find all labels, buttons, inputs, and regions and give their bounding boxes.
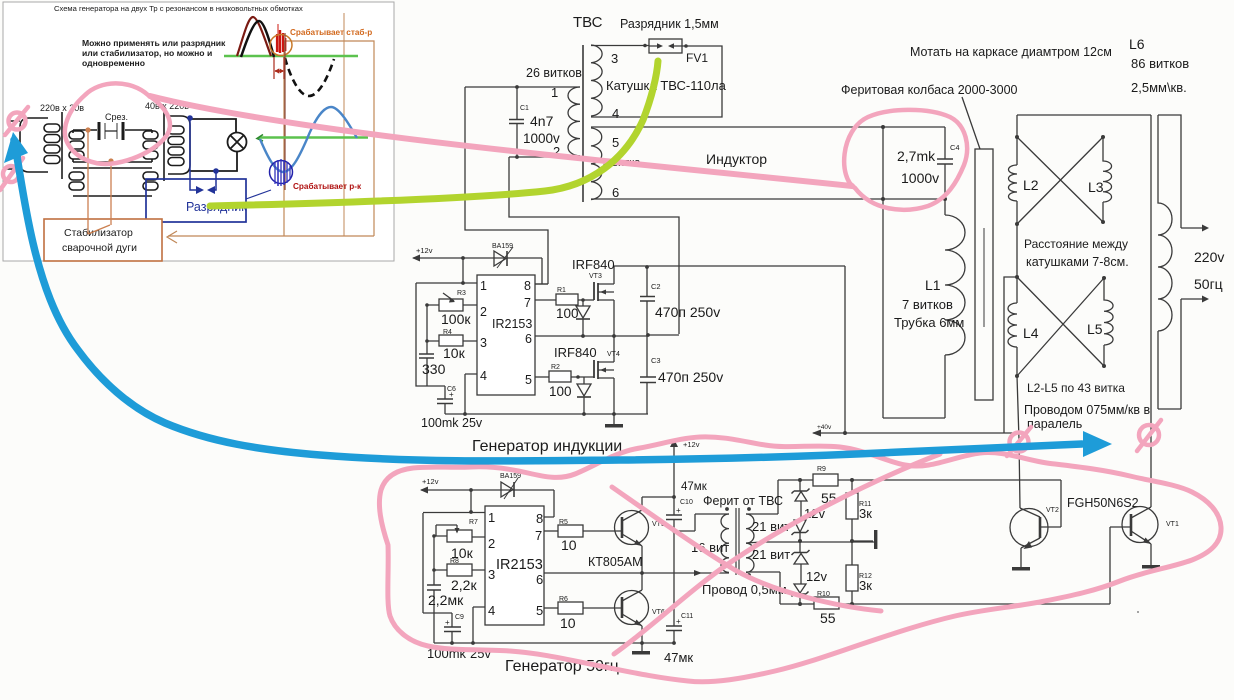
node pin1 junction bbox=[461, 281, 465, 285]
svg-text:R7: R7 bbox=[469, 519, 478, 526]
lamp bbox=[228, 133, 247, 152]
svg-text:Срез.: Срез. bbox=[105, 112, 128, 122]
svg-text:Схема генератора на двух Тр с: Схема генератора на двух Тр с резонансом… bbox=[54, 4, 303, 13]
node L5 top bbox=[1102, 276, 1106, 280]
svg-text:C2: C2 bbox=[651, 282, 661, 291]
svg-text:Проводом 075мм/кв в: Проводом 075мм/кв в bbox=[1024, 403, 1150, 417]
transistor Q VT6 КТ805АМ bbox=[615, 573, 665, 643]
node pin4 bottom bbox=[471, 641, 475, 645]
node +12v / pin1 riser top bbox=[461, 256, 465, 260]
resistor R2 100 bbox=[535, 364, 594, 399]
label КТ805АМ bbox=[588, 555, 643, 569]
svg-text:5: 5 bbox=[525, 373, 532, 387]
svg-text:2: 2 bbox=[488, 536, 495, 551]
node secondary bottom phase dot bbox=[747, 573, 751, 577]
svg-text:55: 55 bbox=[820, 610, 836, 626]
svg-text:10: 10 bbox=[560, 615, 576, 631]
svg-text:6: 6 bbox=[612, 185, 619, 200]
zener D3 12v bbox=[792, 541, 810, 584]
wire winding1 top to C1 bbox=[465, 86, 580, 88]
svg-text:7 витков: 7 витков bbox=[902, 297, 953, 312]
node R7 left bbox=[432, 534, 436, 538]
svg-text:IRF840: IRF840 bbox=[572, 257, 615, 272]
wire winding2 bottom bbox=[509, 156, 580, 158]
ground (induction) bbox=[605, 414, 623, 428]
pink loop around generators bbox=[379, 437, 1221, 682]
pink crossed circle at VT2 collector bbox=[1007, 427, 1031, 456]
resistor R8 2,2к bbox=[434, 558, 485, 593]
op-amp U1 IR2153 (induction) bbox=[477, 275, 535, 395]
wire outer left rail bbox=[423, 513, 452, 613]
svg-text:+: + bbox=[445, 618, 450, 627]
svg-text:паралель: паралель bbox=[1027, 417, 1082, 431]
capacitor Срез plates bbox=[99, 122, 123, 140]
labels tank bbox=[894, 143, 964, 330]
svg-text:+: + bbox=[449, 390, 454, 399]
svg-text:12v: 12v bbox=[806, 569, 827, 584]
wire VT1 base drive bbox=[1110, 527, 1131, 604]
node C1 top bbox=[515, 85, 519, 89]
inductor L5 bbox=[1104, 278, 1113, 366]
svg-text:Можно применять или разрядник: Можно применять или разрядник bbox=[82, 38, 226, 48]
node rail z1 bbox=[798, 478, 802, 482]
node tank left top bbox=[881, 125, 885, 129]
node C9 bottom bbox=[450, 641, 454, 645]
svg-text:L6: L6 bbox=[1129, 36, 1145, 52]
svg-text:10: 10 bbox=[561, 537, 577, 553]
diode BA159 (top) bbox=[494, 247, 513, 268]
label Генератор индукции bbox=[472, 438, 622, 455]
resistor R3 100к (pot) bbox=[427, 290, 477, 327]
pink blob around Срез capacitor bbox=[65, 83, 170, 164]
svg-text:IRF840: IRF840 bbox=[554, 345, 597, 360]
transistor Q VT2 FGH50N6S2 bbox=[1010, 507, 1059, 567]
wire tank left vertical bbox=[882, 127, 884, 418]
resistor R6 10 bbox=[544, 596, 622, 631]
wire L4 bottom to VT2 collector bbox=[1017, 376, 1020, 508]
wire BA159 to pin8 bbox=[535, 258, 548, 284]
svg-text:Феритовая колбаса 2000-3000: Феритовая колбаса 2000-3000 bbox=[841, 83, 1018, 97]
transformer T2 core bbox=[163, 112, 165, 181]
capacitor C3 470п 250v bbox=[640, 336, 723, 414]
svg-text:100: 100 bbox=[549, 384, 572, 399]
node midpoint bbox=[640, 571, 644, 575]
wire +12v rail 50Hz bbox=[420, 487, 554, 494]
node bottom R12 bbox=[850, 602, 854, 606]
svg-text:47мк: 47мк bbox=[681, 481, 708, 493]
svg-text:Ферит от ТВС: Ферит от ТВС bbox=[703, 494, 783, 508]
wire secondary bottom bbox=[746, 572, 780, 604]
pink crossed circle top-left bbox=[5, 107, 28, 135]
svg-text:IR2153: IR2153 bbox=[496, 557, 543, 573]
node orange tap B bbox=[108, 158, 113, 163]
pink crossed circle at VT1 collector bbox=[1137, 420, 1161, 451]
inset frame bbox=[3, 2, 394, 261]
resistor R9 55 bbox=[813, 466, 838, 506]
node pin4 ground bbox=[463, 412, 467, 416]
node tank left mid bbox=[881, 197, 885, 201]
inductor L1 bbox=[945, 215, 965, 418]
diode BA159 (50Hz) bbox=[501, 478, 518, 499]
wire primary left branch down to pin8 area bbox=[465, 87, 548, 284]
node VT6 emitter bottom bbox=[640, 641, 644, 645]
Разрядник box bbox=[146, 179, 247, 222]
svg-text:L5: L5 bbox=[1087, 321, 1103, 337]
resistor R10 55 bbox=[814, 591, 839, 626]
node mid z bbox=[798, 539, 802, 543]
node rail R11 bbox=[850, 478, 854, 482]
svg-text:4: 4 bbox=[612, 106, 619, 121]
node L4 bottom bbox=[1015, 374, 1019, 378]
svg-text:7: 7 bbox=[535, 528, 542, 543]
node secondary top phase dot bbox=[747, 507, 751, 511]
wire L2 block top bbox=[1017, 114, 1151, 116]
wire FV1 loop to winding4 bbox=[591, 46, 722, 117]
waveform 1 dark red peak bbox=[237, 17, 271, 56]
waveform 2 blue sine bbox=[260, 107, 357, 172]
wire pin6 to push-pull midpoint bbox=[544, 572, 642, 574]
capacitor C11 47мк bbox=[664, 613, 693, 665]
svg-text:FV1: FV1 bbox=[686, 51, 708, 65]
ground tap bar bbox=[852, 530, 877, 549]
ground VT2 bbox=[1012, 567, 1030, 571]
transformer TBC winding 1-2 (26 витков) bbox=[568, 87, 580, 156]
labels transformer T3 bbox=[691, 494, 790, 597]
svg-text:Расстояние между: Расстояние между bbox=[1024, 237, 1128, 251]
svg-text:R10: R10 bbox=[817, 591, 830, 598]
node VT5 collector rail bbox=[672, 495, 676, 499]
svg-text:4: 4 bbox=[480, 369, 487, 383]
wire pin1 (50Hz) bbox=[423, 512, 485, 514]
node mid diode1 bbox=[581, 334, 585, 338]
wire bottom rail (induction) bbox=[445, 413, 648, 415]
op-amp U2 IR2153 (50Hz) bbox=[485, 506, 544, 625]
svg-text:86 витков: 86 витков bbox=[1131, 56, 1189, 71]
svg-text:220v: 220v bbox=[1194, 249, 1224, 265]
pink line inset to C4 bbox=[150, 96, 852, 186]
svg-text:R8: R8 bbox=[450, 558, 459, 565]
svg-text:BA159: BA159 bbox=[500, 473, 521, 480]
svg-text:6: 6 bbox=[536, 572, 543, 587]
spark circle (navy hatch) bbox=[270, 159, 293, 186]
ground VT1 bbox=[1142, 565, 1160, 569]
wire top rail half-bridge bbox=[614, 266, 845, 433]
resistor R4 10к bbox=[427, 329, 477, 361]
svg-text:+12v: +12v bbox=[416, 246, 433, 255]
wire pin4 bbox=[465, 374, 477, 414]
Стабилизатор box bbox=[44, 219, 162, 261]
svg-text:21 вит: 21 вит bbox=[752, 547, 790, 562]
svg-text:2: 2 bbox=[480, 305, 487, 319]
wire tank bottom edge bbox=[883, 417, 945, 419]
wire to pin8 (50Hz) bbox=[544, 490, 554, 517]
svg-text:L2: L2 bbox=[1023, 177, 1039, 193]
labels L2-L5 bbox=[1023, 177, 1150, 431]
svg-text:L3: L3 bbox=[1088, 179, 1104, 195]
node VT4 source ground bbox=[612, 412, 616, 416]
orange circle around spike bbox=[270, 35, 292, 56]
svg-text:10к: 10к bbox=[443, 345, 466, 361]
wire secondary center tap bbox=[746, 542, 875, 543]
transistor Q VT1 FGH50N6S2 bbox=[1122, 507, 1179, 566]
svg-text:Катушка ТВС-110ла: Катушка ТВС-110ла bbox=[606, 78, 727, 93]
resistor R12 3к bbox=[846, 541, 872, 604]
capacitor 330 bbox=[419, 305, 446, 386]
wire T1 input stubs bbox=[7, 121, 20, 169]
wire lamp loop bbox=[190, 119, 237, 171]
svg-text:5: 5 bbox=[612, 135, 619, 150]
capacitor C2 470п 250v bbox=[640, 266, 720, 335]
ground (50Hz) bbox=[632, 643, 650, 655]
zener D4 12v bbox=[792, 584, 809, 604]
svg-text:8: 8 bbox=[536, 511, 543, 526]
waveform 2 axis (green) bbox=[257, 135, 368, 142]
diode gate clamp VT4 bbox=[577, 377, 591, 414]
wire L4-L5 cross diagonals bbox=[1017, 277, 1104, 376]
node mid C2 bbox=[646, 333, 650, 337]
wire right vertical to VT1 collector bbox=[1150, 115, 1152, 507]
waveform 1 dashed negative half bbox=[285, 58, 334, 96]
label Генератор 50гц bbox=[505, 658, 619, 675]
node L2 top bbox=[1015, 135, 1019, 139]
node R3 left bbox=[425, 303, 429, 307]
pointer line from Разрядник box bbox=[246, 190, 271, 199]
node C11 bottom bbox=[672, 641, 676, 645]
transformer T2 secondary winding bbox=[168, 116, 190, 174]
svg-text:1000v: 1000v bbox=[901, 170, 939, 186]
spark gap FV1 bbox=[649, 39, 682, 53]
svg-text:Мотать на каркасе диамтром 12с: Мотать на каркасе диамтром 12см bbox=[910, 45, 1112, 59]
inductor L3 bbox=[1103, 137, 1112, 222]
switch blade in stabilizer bbox=[88, 225, 110, 234]
svg-text:R3: R3 bbox=[457, 290, 466, 297]
wire secondary top to rail bbox=[746, 480, 778, 514]
svg-text:C1: C1 bbox=[520, 105, 529, 112]
svg-text:IR2153: IR2153 bbox=[492, 317, 532, 331]
svg-text:C10: C10 bbox=[680, 499, 693, 506]
svg-text:47мк: 47мк bbox=[664, 650, 693, 665]
node primary phase dot bbox=[725, 507, 729, 511]
capacitor C10 47мк bbox=[666, 481, 708, 520]
capacitor C9 100mk 25v bbox=[427, 613, 491, 661]
label Срабатывает р-к bbox=[293, 181, 362, 191]
svg-text:R1: R1 bbox=[557, 287, 566, 294]
wire tank bottom (pin6) bbox=[591, 198, 945, 200]
blue marker curve bbox=[4, 132, 1112, 461]
svg-text:100: 100 bbox=[556, 306, 579, 321]
wire VT5 collector to +12 bbox=[642, 496, 674, 498]
thin brown drop line bbox=[284, 33, 286, 190]
svg-text:VT2: VT2 bbox=[1046, 507, 1059, 514]
node lamp top (navy dot) bbox=[187, 115, 193, 121]
svg-text:100к: 100к bbox=[441, 311, 471, 327]
wire pin1 bbox=[416, 282, 477, 284]
transformer T1 primary winding bbox=[20, 118, 60, 172]
inductor L2 bbox=[1009, 165, 1018, 201]
wire orange tap A to stabilizer bbox=[87, 130, 89, 234]
clipped spike (red scribble) bbox=[277, 24, 286, 53]
svg-text:50гц: 50гц bbox=[1194, 276, 1223, 292]
node pin1 bbox=[469, 510, 473, 514]
transistor Q VT5 КТ805АМ bbox=[615, 497, 665, 573]
wire tank top (pin5 to C4) bbox=[591, 126, 945, 128]
resonant loop upper winding pair bbox=[69, 130, 158, 162]
svg-text:3к: 3к bbox=[859, 506, 872, 521]
node FV1 left bbox=[643, 44, 647, 48]
transistor Q VT3 IRF840 bbox=[572, 257, 615, 336]
transformer TBC winding 5-6 (3 витка) bbox=[591, 128, 602, 200]
svg-text:8: 8 bbox=[524, 279, 531, 293]
transformer TBC core bbox=[582, 45, 584, 202]
wire midpoint to primary bbox=[642, 570, 729, 576]
node L4 top bbox=[1015, 275, 1019, 279]
svg-text:+40v: +40v bbox=[817, 424, 832, 431]
diode gate clamp VT3 bbox=[576, 300, 590, 336]
wire L2-L3 cross diagonals bbox=[1017, 137, 1103, 224]
node L3 top bbox=[1101, 135, 1105, 139]
node C1 bottom bbox=[515, 155, 519, 159]
svg-text:Срабатывает стаб-р: Срабатывает стаб-р bbox=[290, 27, 372, 37]
svg-text:3: 3 bbox=[611, 51, 618, 66]
wire base rail bottom bbox=[780, 603, 1110, 605]
node R4 left bbox=[425, 339, 429, 343]
feedback line with arrow into stabilizer bbox=[167, 231, 374, 243]
wire L6 output bottom bbox=[1158, 296, 1209, 410]
inductor L6 bbox=[1158, 115, 1172, 409]
zener D1 12v bbox=[792, 480, 810, 520]
svg-text:R4: R4 bbox=[443, 329, 452, 336]
wire L4 top to +40v rail bbox=[1004, 277, 1017, 433]
svg-text:3к: 3к bbox=[859, 578, 872, 593]
svg-text:C3: C3 bbox=[651, 356, 661, 365]
waveform 1 axis (green) bbox=[224, 55, 358, 58]
node C2 top bbox=[645, 265, 649, 269]
wire L2-L4 left chain bbox=[1016, 115, 1018, 376]
svg-text:R9: R9 bbox=[817, 466, 826, 473]
node L2 bottom bbox=[1015, 222, 1019, 226]
svg-text:5: 5 bbox=[536, 603, 543, 618]
svg-text:сварочной дуги: сварочной дуги bbox=[62, 242, 137, 254]
resistor R5 10 bbox=[544, 519, 622, 553]
svg-text:Трубка 6мм: Трубка 6мм bbox=[894, 315, 964, 330]
svg-text:1: 1 bbox=[480, 279, 487, 293]
svg-text:4n7: 4n7 bbox=[530, 113, 554, 129]
waveform 1 black peak bbox=[241, 21, 274, 57]
wire +12v vertical rail (C10/C11) bbox=[670, 439, 700, 643]
svg-text:330: 330 bbox=[422, 361, 446, 377]
zener D2 12v bbox=[792, 520, 809, 541]
svg-text:одновременно: одновременно bbox=[82, 58, 145, 68]
inductor L4 bbox=[1008, 303, 1017, 347]
svg-text:R5: R5 bbox=[559, 519, 568, 526]
svg-text:6: 6 bbox=[525, 332, 532, 346]
node R1 gate bbox=[581, 298, 585, 302]
labels right top bbox=[841, 36, 1189, 97]
resistor R1 100 bbox=[535, 287, 594, 321]
transistor Q VT4 IRF840 bbox=[554, 336, 620, 414]
svg-text:100mk: 100mk bbox=[421, 416, 459, 430]
pink cross stroke A bbox=[612, 487, 881, 611]
svg-text:ТВС: ТВС bbox=[573, 14, 603, 31]
transformer T3 secondary 21+21 вит bbox=[746, 514, 754, 572]
transformer T3 primary 16 вит bbox=[721, 514, 729, 572]
pointer line to ferrite rod bbox=[962, 97, 980, 149]
node C4 bottom bbox=[943, 197, 947, 201]
capacitor C1 4n7 bbox=[509, 87, 524, 157]
capacitor C6 100mk 25v bbox=[421, 386, 483, 430]
node mid VT3 source bbox=[612, 334, 616, 338]
node orange tap A bbox=[85, 127, 90, 132]
pink blob around C4 bbox=[844, 110, 967, 210]
svg-text:+12v: +12v bbox=[683, 440, 700, 449]
feedback frame (tan rectangle) bbox=[284, 41, 374, 236]
label Срабатывает стаб-р bbox=[290, 27, 372, 37]
svg-text:или стабилизатор, но можно и: или стабилизатор, но можно и bbox=[82, 48, 212, 58]
svg-text:BA159: BA159 bbox=[492, 243, 513, 250]
svg-text:L2-L5 по 43 витка: L2-L5 по 43 витка bbox=[1027, 381, 1125, 395]
svg-text:L4: L4 bbox=[1023, 325, 1039, 341]
svg-text:C9: C9 bbox=[455, 614, 464, 621]
wire bottom rail 50Hz bbox=[434, 642, 674, 644]
wire to spark gap right bbox=[207, 171, 216, 194]
wire left rail down to C6 bbox=[416, 283, 445, 386]
node L5 bottom bbox=[1102, 364, 1106, 368]
node C10 bottom bbox=[672, 529, 676, 533]
node R2 gate bbox=[576, 375, 580, 379]
label +12v bbox=[422, 477, 439, 486]
wire +12v rail top circuit bbox=[412, 255, 542, 262]
svg-text:2,2мк: 2,2мк bbox=[428, 592, 464, 608]
wire base rail top bbox=[778, 479, 1061, 481]
svg-text:4: 4 bbox=[488, 603, 495, 618]
wire riser pin1 bbox=[470, 490, 472, 512]
svg-text:7: 7 bbox=[524, 296, 531, 310]
svg-text:3: 3 bbox=[480, 336, 487, 350]
wire L6 output top bbox=[1158, 115, 1209, 232]
wire VT2 base drive bbox=[1040, 480, 1061, 527]
svg-text:C11: C11 bbox=[681, 613, 693, 620]
capacitor C4 2,7mk bbox=[937, 127, 953, 215]
resistor R11 3к bbox=[846, 480, 872, 541]
speck bbox=[1137, 611, 1139, 613]
svg-text:+: + bbox=[676, 506, 681, 515]
labels TBC bbox=[520, 14, 767, 200]
transformer T3 core (Ферит от ТВС) bbox=[736, 508, 739, 575]
pink cross stroke B bbox=[614, 454, 940, 654]
svg-text:C4: C4 bbox=[950, 143, 960, 152]
wire winding2 to half-bridge midpoint bbox=[509, 157, 679, 334]
label FGH50N6S2 bbox=[1067, 496, 1139, 510]
node diode2 ground bbox=[582, 412, 586, 416]
node lamp bottom (navy dot) bbox=[213, 168, 219, 174]
node mid R11 bbox=[850, 539, 854, 543]
node L3 bottom bbox=[1101, 220, 1105, 224]
svg-text:VT1: VT1 bbox=[1166, 521, 1179, 528]
wire C10 tap to primary top bbox=[674, 514, 729, 531]
svg-text:2,2к: 2,2к bbox=[451, 577, 477, 593]
svg-text:Стабилизатор: Стабилизатор bbox=[64, 227, 133, 239]
transformer TBC winding 3-4 bbox=[591, 45, 602, 116]
node FV1 right bbox=[684, 44, 688, 48]
svg-text:Срабатывает р-к: Срабатывает р-к bbox=[293, 181, 362, 191]
svg-text:3: 3 bbox=[488, 567, 495, 582]
svg-text:+12v: +12v bbox=[422, 477, 439, 486]
svg-text:R6: R6 bbox=[559, 596, 568, 603]
svg-text:2,5мм\кв.: 2,5мм\кв. bbox=[1131, 80, 1187, 95]
resonant loop lower winding pair bbox=[69, 168, 158, 196]
labels 220v 50гц bbox=[1194, 249, 1224, 292]
svg-text:1: 1 bbox=[488, 510, 495, 525]
